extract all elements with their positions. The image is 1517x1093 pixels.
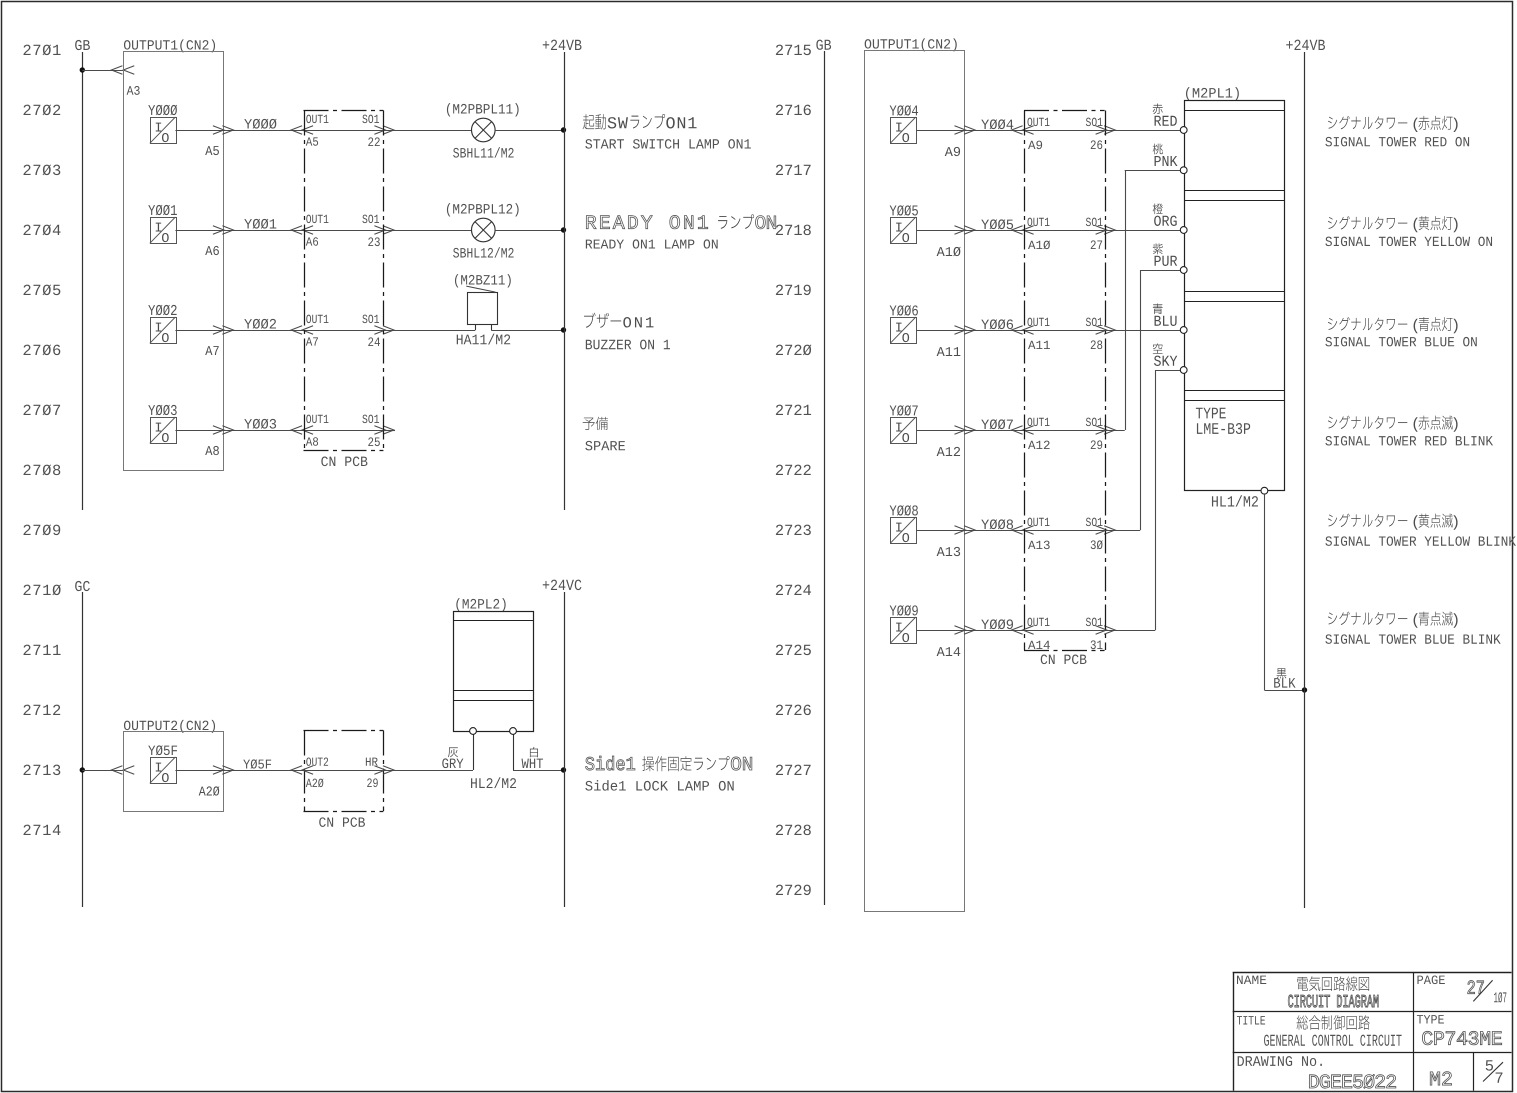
wire color label BLU bbox=[1153, 303, 1163, 314]
line numbers 2715-2729 bbox=[776, 45, 811, 56]
lamp SBHL11/M2 (M2PBPL11) bbox=[447, 103, 519, 116]
wire YØØ7 net label bbox=[965, 430, 1025, 432]
net +24VB (right) bbox=[1286, 40, 1325, 50]
wire YØØ9 to block edge bbox=[917, 630, 965, 632]
lamp HL2/M2 (M2PL2) bbox=[456, 598, 505, 611]
wire YØØ3 net label bbox=[223, 430, 304, 432]
wire YØØ6 to block edge bbox=[917, 330, 965, 332]
wire Y05F net label bbox=[223, 770, 304, 772]
wire YØØ7 to block edge bbox=[917, 430, 965, 432]
CN PCB pin SO1/3Ø bbox=[1024, 530, 1105, 532]
output module Y05F bbox=[148, 745, 177, 755]
label SIGNAL TOWER RED ON bbox=[1328, 117, 1337, 129]
label SIGNAL TOWER YELLOW BLINK bbox=[1328, 514, 1337, 526]
CN PCB pin OUT1/A12 bbox=[1012, 426, 1023, 435]
CN PCB pin OUT1/A7 bbox=[291, 326, 302, 335]
wire YØØØ net label bbox=[223, 130, 304, 132]
wire color label PNK bbox=[1153, 144, 1163, 155]
output module YØØ3 bbox=[148, 405, 176, 416]
wire black to +24VB bbox=[1264, 494, 1266, 690]
junction dot row3 +24VB bbox=[561, 327, 566, 332]
wire YØØ2 to block edge bbox=[175, 330, 223, 332]
wire color label PUR bbox=[1153, 243, 1163, 254]
junction dot +24VC bbox=[561, 767, 566, 772]
CN PCB pin SO1/22 bbox=[304, 130, 384, 132]
CN PCB pin SO1/28 bbox=[1024, 330, 1105, 332]
output module YØØ6 bbox=[890, 305, 918, 316]
wire YØØ2 net label bbox=[223, 330, 304, 332]
title block bbox=[1233, 972, 1235, 1091]
tower terminals bbox=[1180, 127, 1187, 134]
net GC bbox=[75, 581, 90, 591]
label side1 lock lamp on bbox=[585, 756, 635, 770]
output module YØØ9 bbox=[890, 605, 918, 616]
lamp SBHL12/M2 (M2PBPL12) bbox=[447, 203, 519, 216]
CN PCB pin OUT1/A13 bbox=[1012, 526, 1023, 535]
wire YØØ5 net label bbox=[965, 230, 1025, 232]
net +24VC bbox=[543, 580, 582, 591]
title block NAME row bbox=[1237, 976, 1266, 984]
wire Y05F to block edge bbox=[175, 770, 223, 772]
output module YØØ7 bbox=[890, 405, 918, 416]
CN PCB pin OUT1/A14 bbox=[1012, 626, 1023, 635]
output module YØØ8 bbox=[890, 505, 918, 516]
bus GB right vertical bbox=[824, 51, 826, 905]
CN PCB pin SO1/24 bbox=[304, 330, 384, 332]
block CN PCB bottom (dash-dot) bbox=[304, 730, 384, 732]
CN PCB pin OUT1/A1Ø bbox=[1012, 226, 1023, 235]
wire CN PCB to lamp gray bbox=[383, 770, 473, 772]
connector arrow into OUTPUT1 bbox=[111, 66, 122, 75]
junction dot GB bbox=[80, 67, 85, 72]
lamp terminal white bbox=[513, 734, 515, 770]
spare row bbox=[383, 430, 395, 432]
net GB (right) bbox=[816, 40, 831, 50]
wire YØØ3 to block edge bbox=[175, 430, 223, 432]
CN PCB pin OUT1/A8 bbox=[291, 426, 302, 435]
block CN PCB left (dash-dot) bbox=[304, 110, 384, 112]
output module YØØØ bbox=[148, 105, 177, 116]
line numbers 2701-2714 bbox=[23, 44, 60, 55]
block OUTPUT2(CN2) bbox=[124, 720, 215, 733]
wire YØØ4 to block edge bbox=[917, 130, 965, 132]
bus GB left vertical bbox=[82, 52, 84, 510]
wire orange to tower bbox=[1105, 230, 1181, 232]
tower bottom terminal bbox=[1261, 487, 1268, 494]
CN PCB pin SO1/29 bbox=[1024, 430, 1105, 432]
CN PCB pin OUT1/A5 bbox=[291, 126, 302, 135]
block OUTPUT1(CN2) right bbox=[865, 38, 957, 51]
CN PCB pin HR/29 bbox=[304, 770, 384, 772]
signal tower HL1/M2 (M2PL1) bbox=[1186, 87, 1239, 100]
wire sky to tower bbox=[1105, 630, 1156, 632]
CN PCB pin OUT1/A9 bbox=[1012, 126, 1023, 135]
CN PCB pin SO1/27 bbox=[1024, 230, 1105, 232]
output module YØØ5 bbox=[890, 205, 918, 216]
wire color label SKY bbox=[1153, 343, 1163, 353]
label spare bbox=[583, 418, 595, 430]
bus GC vertical bbox=[82, 592, 84, 907]
label ready on1 lamp bbox=[586, 215, 707, 228]
output module YØØ4 bbox=[890, 105, 918, 116]
label SIGNAL TOWER BLUE BLINK bbox=[1328, 612, 1337, 624]
label SIGNAL TOWER BLUE ON bbox=[1328, 318, 1337, 330]
bus +24VB left vertical bbox=[564, 52, 566, 510]
junction dot row1 +24VB bbox=[561, 127, 566, 132]
label buzzer on 1 bbox=[584, 313, 596, 328]
wire purple to tower bbox=[1105, 530, 1141, 532]
CN PCB pin OUT1/A11 bbox=[1012, 326, 1023, 335]
title block DRAWING row bbox=[1238, 1056, 1322, 1066]
wire red to tower bbox=[1105, 130, 1181, 132]
wire YØØ8 to block edge bbox=[917, 530, 965, 532]
wire YØØØ to block edge bbox=[175, 130, 223, 132]
wire color label RED bbox=[1153, 103, 1163, 114]
tower type label bbox=[1196, 408, 1226, 419]
lamp terminal gray bbox=[473, 734, 475, 770]
junction dot row2 +24VB bbox=[561, 227, 566, 232]
CN PCB pin SO1/26 bbox=[1024, 130, 1105, 132]
label SIGNAL TOWER YELLOW ON bbox=[1328, 217, 1337, 229]
wire YØØ5 to block edge bbox=[917, 230, 965, 232]
wire pink to tower bbox=[1105, 430, 1125, 432]
label start switch lamp bbox=[583, 114, 595, 129]
bus +24VC vertical bbox=[564, 592, 566, 907]
output module YØØ1 bbox=[148, 205, 177, 216]
wire color label ORG bbox=[1153, 203, 1163, 214]
label SIGNAL TOWER RED BLINK bbox=[1328, 416, 1337, 428]
sheet number 5/7 bbox=[1486, 1060, 1493, 1070]
wire YØØ6 net label bbox=[965, 330, 1025, 332]
title block TITLE row bbox=[1237, 1016, 1265, 1024]
wire YØØ9 net label bbox=[965, 630, 1025, 632]
CN PCB pin OUT2/A20 bbox=[291, 766, 302, 775]
bus +24VB right vertical bbox=[1304, 52, 1306, 908]
output module YØØ2 bbox=[148, 305, 176, 316]
block CN PCB right (dash-dot) bbox=[1024, 110, 1105, 112]
wire YØØ1 net label bbox=[223, 230, 304, 232]
wire GB to OUTPUT1 bbox=[82, 70, 123, 72]
CN PCB pin OUT1/A6 bbox=[291, 226, 302, 235]
block OUTPUT1(CN2) left bbox=[124, 39, 215, 52]
junction dot black +24VB bbox=[1302, 687, 1307, 692]
buzzer HA11/M2 (M2BZ11) bbox=[455, 274, 511, 287]
wire YØØ8 net label bbox=[965, 530, 1025, 532]
wire YØØ4 net label bbox=[965, 130, 1025, 132]
CN PCB pin SO1/25 bbox=[304, 430, 384, 432]
wire GC to OUTPUT2 bbox=[82, 770, 123, 772]
label A3 bbox=[127, 86, 140, 95]
wire YØØ1 to block edge bbox=[175, 230, 223, 232]
net +24VB (left) bbox=[543, 40, 582, 50]
CN PCB pin SO1/31 bbox=[1024, 630, 1105, 632]
wire white to +24VC bbox=[513, 770, 564, 772]
net GB (left) bbox=[75, 40, 90, 50]
wire blue to tower bbox=[1105, 330, 1181, 332]
junction dot GC bbox=[80, 767, 85, 772]
page number 27/107 bbox=[1468, 981, 1484, 994]
CN PCB pin SO1/23 bbox=[304, 230, 384, 232]
